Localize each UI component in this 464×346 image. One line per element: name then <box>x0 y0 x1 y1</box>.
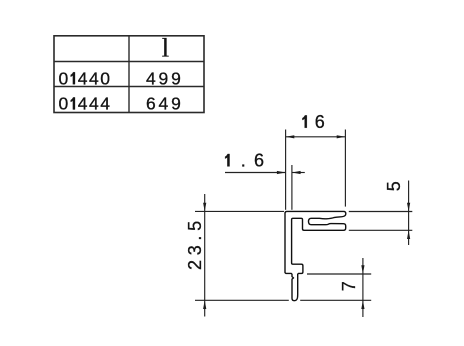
ext 7 top <box>307 273 371 275</box>
svg-text:440: 440 <box>78 68 112 88</box>
svg-text:6: 6 <box>315 112 325 132</box>
ext line 16 right <box>344 130 346 207</box>
ext 5 bottom <box>349 229 413 231</box>
7 bottom arrow (points up) <box>361 300 364 309</box>
svg-text:23.5: 23.5 <box>185 216 205 270</box>
svg-text:444: 444 <box>78 94 112 114</box>
1.6 right arrow (points left) <box>292 171 301 174</box>
dim text 1.6 <box>225 154 229 166</box>
1.6 left arrow (points right) <box>277 171 286 174</box>
profile outline <box>285 211 346 300</box>
5 top arrow (points down) <box>407 203 410 212</box>
svg-text:5: 5 <box>384 181 404 191</box>
leader 1.6 right <box>292 172 305 174</box>
dim 7 vertical <box>362 258 364 317</box>
svg-text:0: 0 <box>59 94 70 114</box>
16 right arrow <box>337 135 346 138</box>
ext 23.5 top <box>195 210 284 212</box>
ext line 1.6 right <box>291 165 293 210</box>
dim text 16 <box>302 115 306 127</box>
dim line 16 <box>286 136 346 138</box>
svg-text:499: 499 <box>146 68 184 88</box>
dimension lines <box>195 130 412 318</box>
23.5 top arrow (points down) <box>203 203 206 212</box>
dim 23.5 vertical <box>204 194 206 317</box>
svg-text:.6: .6 <box>241 150 272 170</box>
arrowheads <box>203 135 410 309</box>
svg-text:649: 649 <box>146 94 184 114</box>
23.5 bottom arrow (points up) <box>203 300 206 309</box>
leader 1.6 left <box>225 172 286 174</box>
16 left arrow <box>286 135 295 138</box>
ext 5 top <box>349 211 413 213</box>
svg-text:7: 7 <box>339 281 359 291</box>
5 bottom arrow (points up) <box>407 230 410 239</box>
ext line left (shared 16 / 1.6) <box>285 130 287 210</box>
ext bottom long (23.5 and 7) <box>195 299 289 301</box>
svg-text:l: l <box>162 33 169 63</box>
svg-text:0: 0 <box>59 68 70 88</box>
table frame <box>54 36 204 113</box>
dim 5 vertical <box>408 181 410 246</box>
7 top arrow (points down) <box>361 265 364 274</box>
